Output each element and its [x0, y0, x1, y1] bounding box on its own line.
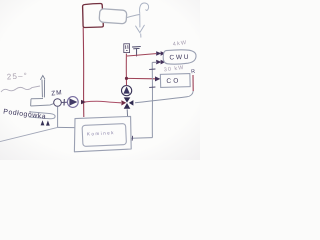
svg-text:CO: CO: [166, 77, 180, 84]
svg-text:25–°: 25–°: [6, 71, 28, 81]
tap / draw-off point: [136, 3, 149, 37]
fireplace outer casing: [74, 116, 131, 151]
air vent (small box on riser top): [124, 44, 130, 53]
mixing/junction valve (X of triangles): [121, 97, 133, 108]
fireplace riser pipe (red vertical, left): [82, 28, 85, 118]
cold feed stub to CWU: [152, 61, 157, 63]
pump P2 (vertical, above valve): [122, 86, 132, 96]
tick on return main (lower): [149, 86, 155, 88]
floor heating loop (flat coil): [29, 112, 55, 119]
sensor probe (double line with fork): [41, 76, 45, 98]
label Kominek: [87, 130, 115, 136]
central heating tank CO (box): [160, 74, 190, 88]
mixing valve ZM (circle): [54, 99, 62, 107]
CO supply pipe (red) with junction dot: [127, 77, 156, 79]
label CWU: [169, 54, 190, 62]
main hot pipe (red horizontal): [84, 101, 121, 103]
floor line squiggle: [1, 86, 40, 92]
boiler outlet box (white rounded rect): [99, 9, 127, 24]
floor loop flow arrows: [41, 120, 50, 125]
pipe ZM to pump: [61, 101, 67, 103]
return to fireplace left side: [58, 126, 75, 128]
hot water tank CWU (capsule): [163, 50, 196, 64]
tick on return main (upper): [149, 68, 155, 70]
label 4kW: [172, 40, 187, 48]
pipe to tap: [127, 15, 140, 18]
open vent funnel: [132, 47, 140, 56]
label CO: [166, 77, 180, 84]
ZM valve bottom connector: [57, 106, 59, 127]
CWU inlet arrows: [156, 51, 165, 64]
svg-text:ZM: ZM: [51, 89, 63, 97]
label 30kW: [164, 65, 185, 73]
label Podlogowka: [3, 109, 47, 121]
CO return downpipe (red then grey): [192, 75, 194, 91]
floor manifold lines: [31, 99, 54, 107]
valve down connector: [126, 109, 128, 117]
svg-text:CWU: CWU: [169, 54, 190, 62]
pipe tick/union: [63, 99, 65, 106]
CWU supply pipe (red): [127, 54, 156, 56]
CO return run to valve: [135, 91, 193, 103]
return run to fireplace box: [131, 137, 152, 140]
floor return diagonal: [0, 127, 58, 141]
flow arrow after pump: [81, 100, 87, 104]
label ZM: [51, 89, 63, 97]
hot riser to tanks (red vertical): [125, 54, 127, 86]
junction tick at fireplace inlet: [131, 136, 133, 141]
temperature label 25°: [6, 71, 28, 81]
expansion vessel (dark red trapezoid, top): [83, 4, 104, 28]
circulation pump P1 (left): [67, 97, 78, 108]
cold water / return main (grey vertical): [151, 62, 153, 137]
fireplace inner body: [82, 124, 126, 147]
label R (top right of CO box): [191, 69, 196, 76]
CO inlet arrow: [155, 76, 160, 81]
